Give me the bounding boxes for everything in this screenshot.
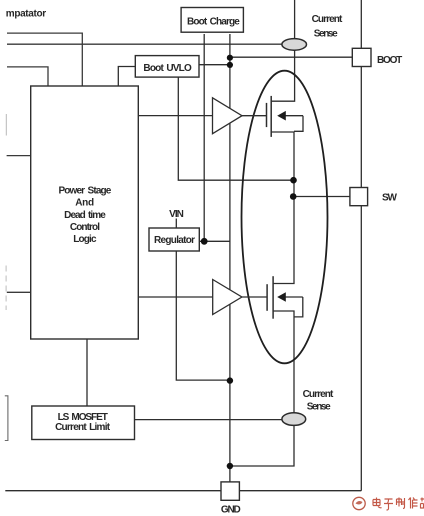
- wire HS driver input: [138, 115, 212, 117]
- pad GND: [221, 482, 239, 500]
- wire regulator right: [199, 240, 230, 242]
- svg-text:Current: Current: [303, 389, 334, 400]
- wire HS source to LS drain: [271, 132, 294, 284]
- logo watermark: [353, 497, 365, 509]
- pad SW: [350, 188, 368, 206]
- wire HS gate: [242, 115, 267, 117]
- wire right bus top: [360, 0, 362, 48]
- wire left input B: [7, 291, 31, 293]
- transistor LS MOSFET: [267, 276, 303, 319]
- block Power Stage: [31, 86, 139, 339]
- wire left input A: [7, 155, 31, 157]
- svg-text:Current: Current: [312, 14, 343, 25]
- wire boot uvlo right: [199, 64, 230, 66]
- node dot gnd: [227, 463, 233, 469]
- wire node to BOOT pad: [230, 56, 352, 58]
- svg-text:Sense: Sense: [314, 29, 338, 40]
- power FET pair ellipse: [242, 71, 328, 364]
- node dot SW a: [290, 177, 297, 184]
- svg-text:Boot UVLO: Boot UVLO: [143, 63, 192, 74]
- svg-text:Sense: Sense: [307, 402, 331, 413]
- svg-text:SW: SW: [382, 193, 397, 204]
- node stub cut box C: [5, 396, 8, 441]
- wire boot uvlo bottom to SW node: [178, 77, 293, 180]
- current sense top: [282, 39, 307, 51]
- svg-text:Control: Control: [70, 222, 100, 233]
- node dot regulator: [201, 238, 208, 245]
- svg-text:Current Limit: Current Limit: [55, 422, 111, 433]
- block Boot UVLO: [135, 56, 199, 78]
- block Regulator: [149, 228, 199, 251]
- node dot boot bus 1: [227, 55, 233, 61]
- block Boot Charge: [181, 8, 243, 33]
- wire LS source down: [273, 311, 294, 413]
- op-amp driver HS: [213, 98, 243, 134]
- wire bottom rail right: [239, 490, 361, 492]
- transistor HS MOSFET: [267, 96, 304, 137]
- wire SW pad: [294, 196, 350, 198]
- wire VIN top feed: [294, 0, 296, 39]
- wire lower sense to gnd node: [230, 425, 294, 466]
- op-amp driver LS: [213, 280, 242, 315]
- wire sense to HS drain: [271, 50, 294, 101]
- wire power stage to LS limit: [86, 339, 88, 406]
- svg-text:BOOT: BOOT: [377, 55, 402, 66]
- wire boot charge left pin: [203, 34, 205, 241]
- svg-text:Power Stage: Power Stage: [58, 186, 111, 197]
- svg-text:Boot Charge: Boot Charge: [187, 17, 240, 28]
- wire regulator down: [176, 251, 230, 380]
- wire right bus: [360, 67, 362, 491]
- node stub faint box A: [5, 114, 7, 136]
- svg-text:Logic: Logic: [73, 234, 97, 245]
- svg-text:And: And: [75, 198, 94, 209]
- wire LS limit to lower sense: [135, 419, 283, 421]
- node stub faint box B: [5, 266, 7, 311]
- wire VIN rail to current sense: [7, 43, 282, 45]
- wire VIN stub: [175, 219, 177, 229]
- node dot SW b: [290, 193, 297, 200]
- wire bottom rail left: [5, 490, 221, 492]
- wire comparator out 1: [7, 33, 82, 86]
- pad BOOT: [352, 48, 371, 66]
- svg-text:Regulator: Regulator: [154, 235, 195, 246]
- svg-text:VIN: VIN: [169, 209, 183, 220]
- svg-text:mpatator: mpatator: [6, 8, 46, 19]
- wire LS gate: [242, 296, 267, 298]
- wire boot uvlo left: [118, 67, 135, 87]
- logo text dianzi zhizuo zhan: [373, 498, 424, 511]
- current sense bottom: [282, 413, 306, 426]
- svg-text:Dead time: Dead time: [64, 210, 106, 221]
- block LS MOSFET Current Limit: [32, 406, 135, 440]
- wire LS driver input: [138, 296, 212, 298]
- wire comparator out 2: [7, 67, 48, 86]
- svg-text:GND: GND: [221, 505, 241, 516]
- wire boot charge right pin long bus: [229, 34, 231, 482]
- node dot regulator feed: [227, 377, 233, 383]
- node dot boot bus 2: [227, 62, 233, 68]
